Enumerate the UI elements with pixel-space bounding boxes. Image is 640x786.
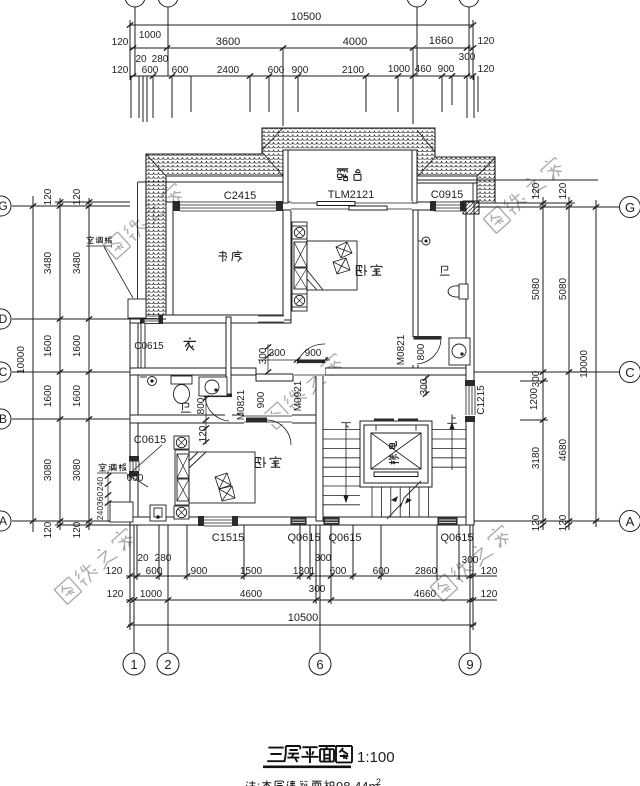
wall: row C band left bbox=[130, 368, 256, 375]
svg-text:1500: 1500 bbox=[240, 566, 263, 577]
wall: row C band right bbox=[325, 368, 466, 375]
svg-text:C0615: C0615 bbox=[134, 434, 166, 446]
svg-text:5080: 5080 bbox=[558, 277, 569, 300]
room label 卧室 bedroom1 bbox=[356, 265, 382, 276]
stair break line bbox=[387, 481, 421, 519]
room label 露台 bbox=[337, 169, 361, 181]
room label 卫 bath1 bbox=[440, 266, 450, 275]
svg-text:120: 120 bbox=[43, 521, 54, 538]
wall: left upper (study) bbox=[166, 202, 173, 318]
svg-text:600: 600 bbox=[172, 65, 189, 76]
svg-text:3480: 3480 bbox=[72, 251, 83, 274]
svg-text:10000: 10000 bbox=[579, 350, 590, 378]
top dim labels bbox=[112, 11, 495, 76]
svg-text:1: 1 bbox=[130, 657, 137, 672]
svg-text:120: 120 bbox=[107, 589, 124, 600]
closet left inner wall bbox=[141, 323, 145, 368]
svg-text:M0821: M0821 bbox=[236, 389, 247, 420]
svg-text:300: 300 bbox=[462, 555, 479, 566]
svg-text:Q0615: Q0615 bbox=[328, 532, 361, 544]
window C0615 #1 in row D wall bbox=[140, 315, 163, 324]
bottom axis circles 1 2 6 9 bbox=[123, 653, 481, 675]
wall: row B band bbox=[130, 415, 320, 423]
room label 书房 bbox=[218, 251, 242, 262]
svg-text:G: G bbox=[625, 200, 635, 215]
svg-text:120: 120 bbox=[106, 566, 123, 577]
svg-text:300: 300 bbox=[459, 52, 476, 63]
stairs left flight treads bbox=[323, 430, 360, 505]
svg-text:120: 120 bbox=[112, 65, 129, 76]
stair label 上 bbox=[447, 414, 457, 423]
window C0615 #2 left wall bbox=[129, 456, 139, 477]
svg-text:5080: 5080 bbox=[531, 277, 542, 300]
left axis circles G D C B A (half cut) bbox=[0, 196, 11, 531]
svg-text:2400: 2400 bbox=[217, 65, 240, 76]
window Q0615 c bbox=[438, 517, 457, 525]
corner pier top-right bbox=[463, 201, 479, 214]
door M0821 bedroom2 (row B) bbox=[244, 414, 292, 445]
stair label 下 bbox=[341, 423, 351, 432]
svg-text:1000: 1000 bbox=[388, 64, 411, 75]
stairs right flight treads bbox=[432, 430, 466, 468]
svg-text:B: B bbox=[0, 412, 7, 426]
svg-text:2: 2 bbox=[376, 777, 381, 786]
svg-text:2100: 2100 bbox=[342, 65, 365, 76]
terrace parapet niche lines top-right bbox=[417, 180, 477, 203]
svg-text:600: 600 bbox=[146, 566, 163, 577]
svg-text:Q0615: Q0615 bbox=[440, 532, 473, 544]
svg-text:TLM2121: TLM2121 bbox=[328, 189, 374, 201]
svg-text:120: 120 bbox=[72, 521, 83, 538]
watermark 图纸之家 top-left bbox=[102, 181, 186, 260]
svg-text:900: 900 bbox=[191, 566, 208, 577]
bath2 washbasin bbox=[199, 377, 227, 396]
leader line C0615 #2 bbox=[127, 445, 162, 476]
svg-text:2860: 2860 bbox=[415, 566, 438, 577]
watermark 图纸之家 bottom-left bbox=[53, 526, 137, 605]
A/C板 upper-left: platform + leader bbox=[128, 299, 146, 318]
svg-text:240: 240 bbox=[95, 506, 105, 520]
terrace parapet niche lines top-left bbox=[138, 182, 284, 315]
left dim labels (rotated) bbox=[16, 188, 83, 538]
svg-text:C1215: C1215 bbox=[476, 385, 487, 415]
svg-text:10500: 10500 bbox=[288, 612, 319, 624]
watermark 图纸之家 bottom-right bbox=[429, 523, 513, 602]
svg-text:900: 900 bbox=[256, 391, 267, 408]
window Q0615 a bbox=[291, 517, 306, 525]
svg-text:360: 360 bbox=[95, 492, 105, 506]
svg-text:120: 120 bbox=[478, 64, 495, 75]
svg-text:600: 600 bbox=[268, 65, 285, 76]
svg-text:120: 120 bbox=[478, 36, 495, 47]
svg-text:20: 20 bbox=[135, 54, 147, 65]
right axis circles G C A bbox=[620, 197, 640, 532]
svg-text:98.44m: 98.44m bbox=[336, 779, 379, 786]
svg-text:1301: 1301 bbox=[293, 566, 316, 577]
wall: right exterior bbox=[466, 202, 474, 525]
svg-text:3480: 3480 bbox=[43, 251, 54, 274]
bottom dimension lines bbox=[126, 525, 497, 652]
A/C板 lower-left: platform + dims bbox=[110, 502, 133, 522]
bed 1 (bedroom top) bbox=[292, 222, 357, 311]
door M0821 bath1 (in divider wall) bbox=[412, 336, 442, 365]
wall: row C jog piece bbox=[256, 374, 293, 381]
svg-text:800: 800 bbox=[196, 397, 207, 414]
svg-text:3600: 3600 bbox=[216, 36, 240, 48]
bath1 washbasin bbox=[449, 338, 470, 365]
svg-text:120: 120 bbox=[531, 182, 542, 199]
title 三层平面图 bbox=[267, 746, 352, 763]
wall: stair hall left bbox=[316, 372, 323, 521]
bottom labels: window names bbox=[106, 532, 498, 624]
svg-text:4600: 4600 bbox=[240, 589, 263, 600]
left dimension lines bbox=[12, 196, 166, 532]
title underline bbox=[263, 766, 351, 769]
wall: left lower exterior bbox=[130, 315, 138, 525]
wall: bedroom1/bath1 divider upper bbox=[413, 210, 418, 338]
top dim ticks bbox=[127, 22, 476, 78]
svg-text:1600: 1600 bbox=[72, 384, 83, 407]
svg-text:300: 300 bbox=[315, 553, 332, 564]
svg-text:6: 6 bbox=[316, 657, 323, 672]
duct box bottom-left corner bbox=[150, 505, 166, 521]
watermark 图纸之家 top-right bbox=[482, 155, 566, 234]
svg-text:1600: 1600 bbox=[43, 334, 54, 357]
svg-text:10000: 10000 bbox=[16, 346, 27, 374]
svg-text:120: 120 bbox=[198, 425, 209, 442]
door M0921 bedroom1 (row C) bbox=[293, 344, 325, 376]
svg-text:120: 120 bbox=[481, 566, 498, 577]
svg-text:120: 120 bbox=[558, 182, 569, 199]
window C1515 bottom wall bbox=[198, 516, 238, 526]
svg-text::: : bbox=[257, 779, 260, 786]
window C2415 in top wall bbox=[173, 201, 283, 211]
svg-text:10500: 10500 bbox=[291, 11, 322, 23]
top dimension lines bbox=[130, 7, 478, 126]
svg-text:20: 20 bbox=[137, 553, 149, 564]
svg-text:C0915: C0915 bbox=[431, 189, 463, 201]
left dim ticks bbox=[30, 199, 92, 527]
svg-text:900: 900 bbox=[438, 64, 455, 75]
svg-text:600: 600 bbox=[373, 566, 390, 577]
svg-text:3080: 3080 bbox=[43, 458, 54, 481]
wall: bottom exterior row A bbox=[130, 517, 473, 525]
right dim labels (rotated) bbox=[529, 182, 590, 531]
sliding door TLM2121 bbox=[291, 201, 412, 211]
wall: closet/bath2 right divider bbox=[226, 317, 231, 419]
svg-text:900: 900 bbox=[305, 348, 322, 359]
svg-text:C0615: C0615 bbox=[134, 341, 164, 352]
svg-text:300: 300 bbox=[309, 584, 326, 595]
svg-text:4000: 4000 bbox=[343, 36, 367, 48]
wall: study/bedroom1 divider bbox=[283, 210, 291, 320]
bed 2 (bedroom bottom-left) bbox=[174, 436, 255, 519]
window C1215 right wall bbox=[465, 380, 475, 422]
svg-text:A: A bbox=[626, 514, 635, 529]
svg-text:600: 600 bbox=[330, 566, 347, 577]
svg-text:900: 900 bbox=[292, 65, 309, 76]
svg-text:280: 280 bbox=[152, 54, 169, 65]
window Q0615 b bbox=[324, 517, 339, 525]
svg-text:G: G bbox=[0, 199, 8, 213]
watermark 图纸之家 center bbox=[262, 351, 346, 430]
svg-text:9: 9 bbox=[466, 657, 473, 672]
svg-text:120: 120 bbox=[112, 37, 129, 48]
svg-text:4660: 4660 bbox=[414, 589, 437, 600]
svg-text:120: 120 bbox=[72, 188, 83, 205]
elevator shaft bbox=[360, 419, 432, 488]
svg-text:1660: 1660 bbox=[429, 35, 453, 47]
wall: row D band bbox=[130, 315, 291, 323]
bath2 floor drain bbox=[140, 377, 157, 386]
svg-text:120: 120 bbox=[531, 514, 542, 531]
svg-text:1000: 1000 bbox=[140, 589, 163, 600]
elevator label 电梯 bbox=[388, 442, 399, 465]
svg-text:M0921: M0921 bbox=[293, 380, 304, 411]
svg-text:1200: 1200 bbox=[529, 387, 540, 410]
room label 衣 closet bbox=[184, 338, 196, 351]
svg-text:460: 460 bbox=[415, 64, 432, 75]
right dim ticks bbox=[540, 200, 599, 527]
svg-text:1600: 1600 bbox=[43, 384, 54, 407]
window C0915 in top wall bbox=[430, 201, 466, 211]
svg-text:240: 240 bbox=[95, 477, 105, 491]
svg-text:2: 2 bbox=[164, 657, 171, 672]
svg-text:C: C bbox=[625, 365, 634, 380]
svg-text:800: 800 bbox=[416, 343, 427, 360]
svg-text:D: D bbox=[0, 312, 8, 326]
wall: terrace left parapet bbox=[283, 150, 288, 203]
svg-text:600: 600 bbox=[142, 65, 159, 76]
bath1 toilet bbox=[448, 284, 468, 299]
svg-text:300: 300 bbox=[531, 370, 542, 387]
svg-text:280: 280 bbox=[155, 553, 172, 564]
label 空调板 upper bbox=[87, 236, 112, 243]
axis stems from top circles bbox=[135, 7, 469, 76]
bath1 floor drain bbox=[418, 237, 430, 245]
bath2 toilet bbox=[171, 376, 192, 404]
roof tile band (stepped eave with fish-scale tiles) bbox=[146, 128, 495, 318]
top axis circles (cut at page top) bbox=[125, 0, 479, 7]
walls bbox=[130, 150, 474, 525]
label 空调板 lower bbox=[99, 463, 126, 471]
svg-text:C2415: C2415 bbox=[224, 190, 256, 202]
door M0821 bath2 (in closet divider wall) bbox=[204, 394, 232, 422]
svg-text:Q0615: Q0615 bbox=[287, 532, 320, 544]
small dim lines in corridor bbox=[206, 344, 426, 444]
svg-text:M0821: M0821 bbox=[396, 334, 407, 365]
miter lines of eave bbox=[146, 128, 495, 176]
extension verticals below row3 bbox=[131, 76, 478, 124]
svg-text:A: A bbox=[0, 514, 7, 528]
room label 卫 bath2 bbox=[181, 403, 191, 412]
svg-text:4680: 4680 bbox=[558, 438, 569, 461]
stair walk line up bbox=[450, 423, 454, 470]
bottom dim ticks bbox=[127, 573, 476, 627]
opening study door row D bbox=[258, 316, 284, 322]
plan text labels (latin) bbox=[134, 189, 487, 446]
stair walk line down bbox=[344, 432, 348, 502]
svg-text:120: 120 bbox=[558, 514, 569, 531]
svg-text:1000: 1000 bbox=[139, 30, 162, 41]
svg-text:3180: 3180 bbox=[531, 446, 542, 469]
stairs bottom flight treads bbox=[372, 487, 428, 517]
svg-text:1:100: 1:100 bbox=[357, 749, 395, 766]
room label 卧室 bedroom2 bbox=[255, 457, 281, 468]
wall: terrace right parapet bbox=[412, 150, 417, 203]
bottom note (cut off): 注:本层建筑面积: 98.44m2 bbox=[246, 780, 335, 786]
svg-text:600: 600 bbox=[127, 473, 144, 484]
svg-text:120: 120 bbox=[481, 589, 498, 600]
svg-text:C1515: C1515 bbox=[212, 532, 244, 544]
right dimension lines bbox=[474, 180, 620, 530]
svg-text:C: C bbox=[0, 365, 8, 379]
svg-text:3080: 3080 bbox=[72, 458, 83, 481]
wall: top exterior row G bbox=[166, 202, 473, 210]
wall: bedroom1/bath1 divider lower stub bbox=[413, 364, 418, 375]
svg-text:120: 120 bbox=[43, 188, 54, 205]
svg-text:1600: 1600 bbox=[72, 334, 83, 357]
